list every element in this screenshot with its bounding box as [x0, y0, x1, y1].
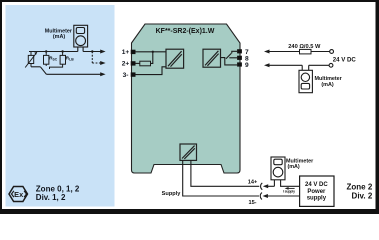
wire: top rail to terminal 1+ — [29, 51, 101, 53]
svg-text:(mA): (mA) — [287, 164, 299, 170]
svg-text:24 V DC: 24 V DC — [333, 56, 357, 63]
node: RSC top junction — [45, 50, 47, 52]
terminal label 8 — [245, 56, 249, 63]
terminal square 1+ — [131, 50, 136, 54]
wire: 1+ to isolator U1 — [135, 51, 166, 53]
hazardous area panel (Zone 0,1,2) — [6, 5, 115, 207]
node: dashed branch junction — [91, 50, 93, 52]
resistor RLB — [50, 52, 66, 70]
label Multimeter (mA) left — [45, 29, 73, 40]
arrow into 3- — [100, 72, 105, 76]
multimeter M2 (mA) on output — [299, 65, 312, 92]
wire: supply 15- from device — [183, 160, 259, 196]
wire: supply 14+ from device — [191, 160, 259, 186]
plug arrow on 15- — [263, 194, 268, 198]
label 24 V DC — [333, 56, 357, 63]
svg-text:Supply: Supply — [162, 191, 182, 197]
plug arrow on 14+ — [263, 184, 268, 188]
terminal square 8 — [237, 56, 242, 60]
svg-text:Zone 2: Zone 2 — [347, 182, 373, 191]
switch contact S1 — [31, 67, 46, 75]
svg-text:15-: 15- — [248, 200, 256, 206]
svg-text:Zone 0, 1, 2: Zone 0, 1, 2 — [36, 184, 80, 193]
wire: 2+ to input resistor — [135, 62, 140, 64]
label RLB — [66, 56, 74, 62]
wire: multimeter M3 to power supply — [281, 180, 300, 187]
svg-text:240 Ω/0.5 W: 240 Ω/0.5 W — [288, 44, 321, 50]
device title KF**-SR2-(Ex)1.W — [156, 28, 215, 35]
label 14+ — [248, 180, 258, 186]
terminal circle 24V+ — [330, 50, 334, 54]
svg-text:24 V DC: 24 V DC — [305, 182, 328, 188]
socket on 14+ — [261, 183, 263, 190]
label Zone 2 / Div. 2 — [347, 182, 373, 200]
terminal square 7 — [237, 49, 242, 53]
arrow toward terminal 7 — [264, 50, 270, 54]
svg-text:Ex: Ex — [14, 190, 24, 199]
wire (dashed) branch to terminal 2+ — [92, 52, 101, 64]
terminal square 3- — [131, 72, 136, 76]
label Multimeter (mA) bottom — [286, 158, 314, 170]
socket on 15- — [260, 193, 262, 200]
relay contact K1 — [221, 51, 238, 65]
terminal label 3- — [123, 72, 129, 79]
svg-text:1+: 1+ — [122, 49, 130, 56]
label RSC — [49, 56, 58, 62]
wire: external circuit on terminal 9 — [268, 64, 329, 66]
isolator U3 (supply isolation) — [180, 144, 197, 160]
power supply 24 V DC — [300, 176, 334, 206]
wire: node down to input resistor — [151, 52, 153, 64]
arrowhead of sensor — [34, 52, 37, 55]
multimeter M3 (mA) on supply — [271, 157, 285, 186]
terminal circle 24V- — [329, 63, 333, 67]
svg-text:supply: supply — [307, 196, 327, 202]
wire: bottom rail to terminal 3- — [46, 73, 100, 75]
node on 1+ wire — [152, 51, 154, 53]
svg-text:3-: 3- — [123, 72, 129, 79]
svg-text:Div. 1, 2: Div. 1, 2 — [36, 193, 66, 202]
label Multimeter (mA) right — [315, 76, 343, 88]
isolator U2 (galvanic isolation) — [203, 49, 221, 67]
dashed arrow into 2+ — [100, 61, 105, 65]
svg-text:9: 9 — [245, 62, 249, 69]
resistor 240 ohm / 0.5 W — [300, 49, 312, 54]
terminal square 9 — [237, 62, 242, 66]
device KF**-SR2-(Ex)1.W body — [132, 24, 241, 173]
sensor B1 (adjustable resistor) — [25, 52, 36, 68]
svg-text:I supply: I supply — [283, 189, 295, 193]
multimeter M1 (mA) — [74, 25, 88, 51]
arrow toward terminal 9 — [264, 63, 270, 67]
svg-text:Div. 2: Div. 2 — [352, 192, 373, 201]
terminal label 9 — [245, 62, 249, 69]
terminal label 2+ — [122, 61, 130, 68]
arrow into 1+ — [100, 50, 105, 54]
svg-text:2+: 2+ — [122, 61, 130, 68]
input resistor (series with 2+) — [140, 61, 151, 66]
terminal label 7 — [245, 49, 249, 56]
wire: external circuit on terminal 7 — [268, 51, 330, 53]
isolator U1 (galvanic isolation) — [166, 49, 184, 68]
resistor RSC — [44, 52, 49, 67]
label 240 Ohm/0.5 W — [288, 44, 321, 50]
svg-text:(mA): (mA) — [321, 82, 333, 88]
label Zone 0,1,2 / Div. 1,2 — [36, 184, 80, 202]
label Supply — [162, 191, 182, 197]
label I supply — [283, 189, 295, 193]
svg-text:14+: 14+ — [248, 180, 258, 186]
current arrow I supply — [285, 187, 295, 190]
terminal square 2+ — [131, 61, 136, 65]
wire: 15- to power supply — [267, 195, 299, 197]
svg-text:KF**-SR2-(Ex)1.W: KF**-SR2-(Ex)1.W — [156, 28, 215, 35]
svg-text:Power: Power — [307, 189, 326, 195]
wire: 14+ to multimeter M3 — [268, 185, 275, 187]
Ex logo — [9, 187, 28, 202]
svg-text:(mA): (mA) — [53, 34, 65, 40]
node: RLB top junction — [61, 50, 63, 52]
label 15- — [248, 200, 256, 206]
wire: 3- to isolator U1 bottom — [135, 67, 166, 75]
terminal label 1+ — [122, 49, 130, 56]
